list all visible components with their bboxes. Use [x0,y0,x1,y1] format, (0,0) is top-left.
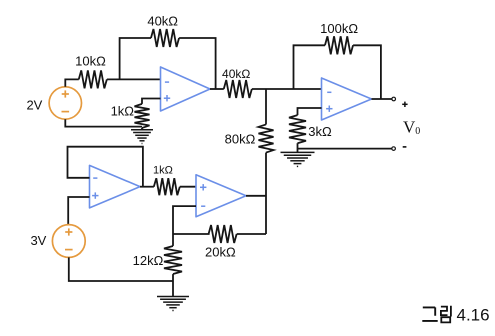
resistor R 1k (U1) [135,104,150,128]
op-amp U1 [161,67,211,111]
wire U3 output [140,186,154,188]
svg-text:40kΩ: 40kΩ [147,14,178,29]
voltage source 3V [52,225,85,258]
wire 12k bottom to ground [172,274,174,296]
svg-text:40kΩ: 40kΩ [222,67,250,81]
caption hangul 그 [422,307,437,321]
svg-text:20kΩ: 20kΩ [205,245,236,260]
svg-text:3kΩ: 3kΩ [308,124,332,139]
wire U3 feedback [68,147,143,187]
wire feedback up left [120,38,151,79]
resistor R 12k [164,246,182,274]
svg-text:1kΩ: 1kΩ [153,165,173,177]
ground G3 [281,151,315,153]
wire - terminal [298,148,392,150]
op-amp U2 [322,78,372,120]
terminal - circle [392,147,396,151]
wire 100k feedback right [353,45,381,99]
svg-text:2V: 2V [26,98,42,113]
svg-text:4.16: 4.16 [457,306,490,325]
wire feedback right down [179,38,216,89]
wire 1k to U4 + input [180,186,196,188]
wire 80k bottom to U4 output node and 20k [265,153,267,234]
wire node X to U2 inverting input [252,88,322,90]
resistor R 1k (U3-U4) [154,178,180,195]
wire 1k bottom to ground [141,128,143,130]
wire U2 + input to 3k [298,108,322,115]
wire 10k to U1 inverting input [107,78,161,80]
wire U4 - input down [173,206,196,234]
wire 3V bottom loop [69,257,173,281]
svg-text:1kΩ: 1kΩ [111,104,135,119]
svg-text:80kΩ: 80kΩ [225,132,256,147]
wire U3 + input from 3V [68,197,89,224]
resistor R 3k [289,115,306,143]
resistor R 10k [79,70,107,88]
svg-text:12kΩ: 12kΩ [133,253,164,268]
minus sign output [403,146,407,148]
wire U2 output to + terminal [372,98,392,100]
svg-text:3V: 3V [30,233,46,248]
wire U4 output [246,195,266,197]
caption hangul 림 [441,306,451,323]
resistor R 40k feedback [151,29,179,47]
wire 2V bottom loop [65,119,142,126]
ground G1 [131,129,153,131]
op-amp U4 [196,175,246,217]
wire 2V top to 10k [65,79,79,86]
plus sign output [402,103,407,105]
wire U1 + input to 1k [142,99,161,104]
voltage source 2V [49,87,81,119]
ground G2 [157,296,189,298]
resistor R 80k [259,124,274,152]
op-amp U3 [90,165,141,208]
wire 12k top lead [172,234,174,246]
svg-text:10kΩ: 10kΩ [75,53,106,68]
terminal + circle [392,97,396,101]
resistor R 40k output [224,80,252,98]
resistor R 100k [325,36,353,54]
wire 20k left [173,233,210,235]
wire 80k top lead [265,89,267,125]
resistor R 20k [209,225,237,243]
wire 100k feedback left [294,45,326,89]
wire 20k right up [237,233,266,235]
svg-text:100kΩ: 100kΩ [320,21,358,36]
wire 3k bottom to ground [297,143,299,152]
wire U1 output [210,88,224,90]
